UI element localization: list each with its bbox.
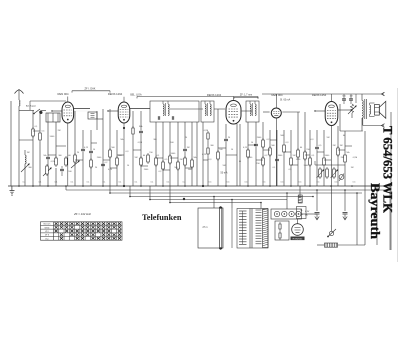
junction dot 0	[18, 185, 20, 187]
pot R34	[319, 167, 321, 169]
IF3 coil A	[250, 104, 251, 116]
wire col x48	[47, 122, 49, 155]
resistor R3	[55, 156, 57, 158]
svg-text:2M: 2M	[341, 157, 344, 159]
resistor R15	[177, 160, 179, 162]
svg-text:ZF II: ZF II	[45, 235, 50, 237]
wire anode row mid	[170, 108, 203, 110]
capacitor C14	[60, 168, 64, 170]
rail stub left4	[129, 186, 131, 197]
wire stub 24	[256, 159, 263, 161]
wire col x305	[304, 112, 306, 186]
wire stub 17	[91, 142, 97, 144]
capacitor C5	[101, 163, 105, 165]
wire stub 18	[110, 167, 117, 169]
IF1 coil B	[168, 104, 169, 116]
mains transformer hatched core band	[263, 209, 269, 248]
wire stub 0	[33, 130, 40, 132]
svg-text:1M: 1M	[187, 147, 190, 149]
junction dot 3	[65, 185, 67, 187]
IF1 trim caps	[157, 116, 159, 120]
speaker cone	[379, 101, 386, 118]
junction dot 12	[247, 185, 249, 187]
junction dot b 3	[169, 202, 171, 204]
resistor R17	[191, 158, 193, 160]
resistor R7	[109, 148, 111, 150]
wire col x298	[297, 112, 299, 186]
junction dot b 11	[356, 192, 358, 194]
resistor R11	[147, 153, 149, 155]
wire x208	[207, 141, 209, 146]
svg-text:RGN2004: RGN2004	[293, 238, 304, 240]
rail stub left3	[109, 186, 111, 193]
svg-text:5M: 5M	[327, 137, 330, 139]
wire junction	[41, 110, 47, 112]
wire col x156	[155, 122, 157, 186]
small terminal box	[297, 207, 307, 219]
wire col x103	[102, 109, 104, 186]
resistor R31	[337, 146, 339, 148]
resistor R20	[217, 150, 219, 152]
svg-text:Gl. 63 mA: Gl. 63 mA	[280, 98, 291, 101]
resistor R12	[155, 156, 157, 158]
wire stub 5	[156, 157, 163, 159]
capacitor C2	[46, 156, 50, 158]
svg-text:50k: 50k	[193, 157, 196, 159]
svg-text:RENS 1254: RENS 1254	[312, 93, 327, 97]
speaker magnet	[375, 105, 380, 116]
wire right border upper	[390, 84, 392, 186]
PSU chassis box	[198, 208, 223, 248]
wire sec to speaker	[370, 102, 375, 104]
wire col x338	[337, 126, 339, 186]
vertical dumbbell R18	[207, 131, 209, 133]
junction dot 8	[162, 185, 164, 187]
anode line top	[262, 93, 384, 95]
wire x300 drop	[299, 186, 301, 198]
PSU tall electrode	[219, 207, 221, 249]
wire pot rail	[315, 164, 345, 166]
IF1 core line	[165, 103, 167, 116]
svg-text:27 m: 27 m	[202, 227, 207, 229]
wire y131 segment	[340, 130, 363, 132]
wire col x56	[55, 122, 57, 158]
resistor R33 zigzag	[350, 104, 353, 113]
svg-text:Ant.Koppl.: Ant.Koppl.	[26, 105, 36, 108]
wire stub 14	[19, 139, 33, 141]
svg-text:RENS 1294: RENS 1294	[108, 92, 123, 96]
wire x344	[343, 94, 345, 99]
wire col x263	[262, 122, 264, 186]
voltage selector striped block	[325, 243, 338, 247]
svg-text:0,1M: 0,1M	[138, 142, 143, 144]
wire antenna down	[18, 106, 20, 186]
dark blob component	[40, 111, 43, 114]
resistor R2	[39, 131, 41, 133]
output transformer core	[364, 99, 366, 119]
socket 1	[274, 211, 279, 216]
capacitor C7	[183, 148, 187, 150]
wire col x197	[196, 122, 198, 186]
wire stub 9	[263, 149, 270, 151]
svg-text:2M: 2M	[333, 145, 336, 147]
bracket line ZF I	[72, 90, 110, 92]
wire anode V2	[130, 108, 150, 110]
earth arrow 2	[344, 215, 346, 220]
wire row y109 a	[18, 110, 20, 112]
junction dot b 7	[286, 192, 288, 194]
svg-text:1M: 1M	[27, 152, 30, 154]
tube V3 RENS1204	[226, 101, 241, 125]
wire col x178	[177, 122, 179, 186]
right border line	[390, 112, 392, 250]
wire grid V5	[315, 110, 325, 112]
antenna	[15, 90, 24, 94]
resistor R28	[304, 150, 306, 152]
capacitor C500a	[342, 98, 346, 100]
small box filter	[88, 112, 97, 119]
svg-text:REN 904: REN 904	[272, 93, 283, 97]
tuning gang C1 frame	[46, 113, 60, 122]
wire stub 2	[103, 159, 110, 161]
svg-text:Bereich: Bereich	[44, 224, 51, 226]
wire stub 19	[141, 165, 148, 167]
wire anode V5	[338, 109, 352, 111]
resistor R10	[140, 156, 142, 158]
tube V2 RENS1294	[118, 102, 130, 123]
pot arrow P1	[21, 164, 29, 172]
wire col x83	[82, 130, 84, 146]
paper edge shadow	[397, 88, 399, 262]
resistor R8	[116, 156, 118, 158]
capacitor C13	[343, 211, 348, 213]
pot arrow P2	[71, 161, 79, 168]
rail stub left2	[65, 186, 67, 190]
wire col x33	[32, 111, 34, 187]
resistor R37	[46, 164, 48, 166]
wire x357 drop	[356, 193, 358, 245]
wire stub 26	[291, 164, 298, 166]
junction dot 5	[102, 185, 104, 187]
wire col x270	[269, 130, 271, 186]
junction dot 2	[47, 185, 49, 187]
capacitor C10	[275, 158, 279, 160]
capacitor C11	[315, 146, 319, 148]
wire x97	[96, 111, 98, 130]
resistor R25	[283, 143, 285, 145]
wire PSU to right	[302, 213, 318, 215]
svg-text:1M: 1M	[351, 167, 354, 169]
wire socket drop x287	[286, 193, 288, 209]
junction dot 7	[140, 185, 142, 187]
junction dot 10	[202, 185, 204, 187]
mains transformer frame	[237, 209, 268, 249]
svg-text:2M: 2M	[180, 159, 183, 161]
socket 3	[289, 211, 294, 216]
output transformer secondary	[370, 105, 371, 114]
svg-text:Osz.: Osz.	[45, 238, 50, 240]
coil L1	[25, 155, 26, 164]
junction dot b 1	[129, 196, 131, 198]
junction dot 16	[330, 185, 332, 187]
capacitor C500b	[349, 98, 353, 100]
wire stub 7	[218, 147, 226, 149]
svg-text:5M: 5M	[135, 157, 138, 159]
junction dot 15	[309, 185, 311, 187]
socket 4	[296, 211, 301, 216]
label RGN2004	[291, 237, 305, 241]
mains switch	[329, 231, 333, 235]
junction dot 18	[376, 185, 378, 187]
wire x351	[350, 94, 352, 99]
PSU inner box	[275, 221, 289, 240]
wire left border	[10, 101, 12, 186]
wire stub 22	[203, 159, 208, 161]
wire stub 3	[117, 154, 124, 156]
junction dot b 8	[312, 196, 314, 198]
junction dot b 4	[213, 196, 215, 198]
wire stub 27	[324, 159, 331, 161]
IF3 core	[252, 103, 254, 116]
wire col x170	[169, 122, 171, 186]
wire col x117	[116, 130, 118, 186]
resistor R14	[169, 154, 171, 156]
rail 3	[110, 192, 362, 194]
resistor R22	[262, 138, 264, 140]
hatched block small	[298, 195, 302, 203]
resistor R6	[90, 158, 92, 160]
svg-text:ZF = 132 kHz: ZF = 132 kHz	[73, 212, 91, 216]
IF2 coil B	[210, 104, 211, 116]
wire top rail left	[30, 100, 66, 102]
rail stub left5	[149, 186, 151, 200]
capacitor C4	[89, 150, 93, 152]
junction dot 11	[225, 185, 227, 187]
PSU small caps	[279, 222, 281, 224]
ground symbol left	[11, 186, 13, 191]
long top line	[137, 96, 258, 98]
wire stub 4	[133, 149, 141, 151]
wire col x75	[74, 111, 76, 186]
resistor R9	[132, 126, 134, 128]
wire stub 23	[226, 154, 237, 156]
IF2 coil A	[205, 104, 206, 116]
IF3 box	[246, 101, 259, 122]
junction dot 6	[123, 185, 125, 187]
table header column divider	[53, 222, 55, 240]
svg-text:0,1M: 0,1M	[353, 157, 358, 159]
main chassis rail	[8, 185, 391, 187]
junction dot 4	[82, 185, 84, 187]
mains switch lever	[331, 186, 333, 231]
dark blob component 3	[123, 185, 125, 187]
resistor R4	[74, 153, 76, 155]
mains transformer primary winding	[239, 210, 247, 212]
dark blob component 4	[202, 185, 204, 187]
socket 2	[282, 211, 287, 216]
svg-text:ZF I: ZF I	[45, 231, 49, 233]
table X marks	[55, 222, 58, 225]
wire col x40	[39, 112, 41, 131]
wire col x133	[132, 111, 134, 128]
wire grid row b	[74, 110, 90, 112]
svg-text:50k: 50k	[120, 139, 123, 141]
junction dot b 6	[260, 202, 262, 204]
svg-text:50k: 50k	[43, 155, 46, 157]
svg-text:0,1M: 0,1M	[204, 130, 209, 132]
rail stub left6	[169, 186, 171, 203]
switch S2	[339, 175, 344, 180]
wire stub 8	[248, 144, 256, 146]
dot junction V2	[123, 127, 125, 129]
vertical dumbbell R19	[207, 146, 209, 148]
wire stub 12	[317, 151, 324, 153]
wire PSU drop x232	[231, 200, 233, 209]
capacitor C9	[254, 143, 258, 145]
pot R35	[326, 167, 328, 169]
IF2 core	[207, 103, 209, 116]
svg-text:BEL. LIGA: BEL. LIGA	[130, 94, 142, 97]
table row lines	[41, 224, 123, 226]
wire col x203	[202, 122, 204, 186]
wire stub 1	[48, 154, 56, 156]
tube V1 REN904	[62, 102, 74, 123]
resistor R24	[269, 146, 271, 148]
rail 2	[66, 189, 391, 191]
wire stub 16	[75, 159, 83, 161]
capacitor C3	[81, 148, 85, 150]
svg-text:ZF I. DAK: ZF I. DAK	[85, 88, 96, 91]
wire input horizontal	[19, 110, 34, 112]
wire stub 13	[338, 149, 345, 151]
resistor R16	[184, 156, 186, 158]
IF1 coil A	[163, 104, 164, 116]
svg-text:Bayreuth: Bayreuth	[368, 183, 382, 239]
tube V5 RENS1254	[325, 102, 338, 126]
junction dot b 9	[316, 189, 318, 191]
wire anode V3	[242, 110, 252, 112]
output transformer primary	[362, 101, 363, 119]
wire col x218	[217, 109, 219, 186]
wire stub 15	[56, 145, 66, 147]
antenna coupling coil	[19, 100, 20, 106]
resistor R30	[323, 156, 325, 158]
capacitor C8	[224, 138, 228, 140]
svg-text:0,1M: 0,1M	[51, 161, 56, 163]
wire stub 6	[170, 157, 178, 159]
tuning cap rotor	[47, 113, 49, 122]
resistor R29	[309, 156, 311, 158]
wire transformer drop x261	[260, 203, 262, 209]
wire anode V4	[282, 111, 300, 113]
svg-text:1M: 1M	[340, 145, 343, 147]
wire PSU drop x214	[213, 197, 215, 209]
pot arrow P3	[348, 106, 356, 114]
rail 4	[130, 196, 313, 198]
rail 5	[150, 199, 287, 201]
svg-text:ZF: 1,7 mm: ZF: 1,7 mm	[240, 93, 252, 96]
junction dot b 2	[149, 199, 151, 201]
svg-text:REN 904: REN 904	[58, 92, 69, 96]
wire anode to V3	[214, 108, 225, 110]
IF3 coil B	[255, 104, 256, 116]
junction dot 17	[351, 185, 353, 187]
arrow tick right top	[382, 92, 385, 96]
arrow tick right bottom	[382, 124, 385, 128]
capacitor C12	[315, 211, 320, 213]
svg-text:Telefunken: Telefunken	[142, 213, 182, 222]
wire rect top	[297, 219, 299, 224]
switch S1 wave band	[34, 109, 40, 114]
wire right border	[389, 186, 391, 250]
svg-text:50k: 50k	[346, 152, 349, 154]
junction dot b 0	[109, 192, 111, 194]
table column lines	[58, 222, 60, 240]
junction dot b 5	[231, 199, 233, 201]
wire col x163	[162, 122, 164, 186]
wire stub 10	[284, 151, 291, 153]
resistor R5	[65, 156, 67, 158]
wire x362.8 down	[362, 118, 364, 126]
wire selector	[317, 244, 325, 246]
wire speaker return x365	[364, 131, 366, 245]
resistor R1	[32, 127, 34, 129]
wire col x310	[309, 130, 311, 186]
svg-text:5M: 5M	[293, 155, 296, 157]
pot R36	[333, 167, 335, 169]
wire stub 20	[163, 169, 170, 171]
rectifier tube RGN2004	[292, 224, 304, 236]
resistor R13	[162, 160, 164, 162]
wire anode V1 to V2	[74, 108, 90, 110]
resistor R23	[262, 156, 264, 158]
earth arrow 1	[316, 215, 318, 220]
junction dot 1	[32, 185, 34, 187]
IF2 box	[201, 101, 214, 122]
wire col x248	[247, 122, 249, 186]
wire x317 drop	[316, 190, 318, 211]
wire col x110	[109, 109, 111, 186]
svg-text:50 mA: 50 mA	[221, 172, 228, 175]
wire col x192	[191, 122, 193, 186]
wire grid V2	[108, 110, 118, 112]
wire stub 25	[270, 139, 277, 141]
tube V4 REN904	[271, 108, 281, 118]
table outline	[41, 222, 123, 240]
IF box1 outline	[150, 101, 199, 122]
pot P4	[43, 168, 51, 176]
capacitor C6	[139, 130, 143, 132]
wire x356 down	[355, 94, 357, 103]
junction dot 13	[269, 185, 271, 187]
wire stub 11	[305, 154, 310, 156]
resistor R21	[247, 148, 249, 150]
wire x345 drop	[344, 190, 346, 211]
mains transformer secondary winding	[256, 209, 262, 211]
dark blob component 2	[183, 198, 185, 200]
mains transformer core	[249, 209, 251, 249]
resistor R27	[297, 148, 299, 150]
socket strip box	[271, 209, 302, 219]
speaker line bottom	[363, 125, 384, 127]
wire grid V1	[52, 110, 62, 112]
wire x377 drop	[376, 186, 378, 245]
wire stub 28	[345, 145, 352, 147]
svg-text:2M: 2M	[58, 130, 61, 132]
resistor R26	[290, 156, 292, 158]
wire grid V4	[263, 111, 270, 113]
rail 6	[170, 202, 261, 204]
